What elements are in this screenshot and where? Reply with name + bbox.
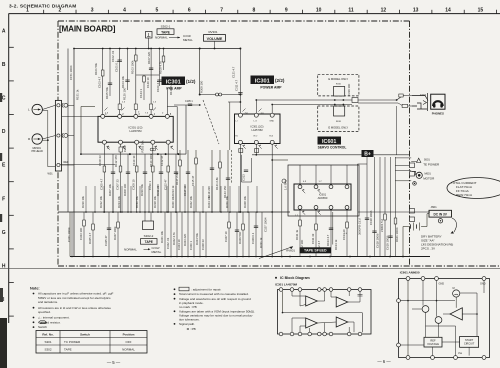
svg-text:SERVO CONTROL: SERVO CONTROL: [318, 145, 347, 149]
svg-text:R328 10k: R328 10k: [243, 195, 247, 208]
svg-text:R110 2.2k: R110 2.2k: [169, 82, 173, 95]
svg-text:TAPE: TAPE: [145, 240, 153, 244]
svg-text:IC601: IC601: [319, 193, 327, 197]
svg-text:C307 33: C307 33: [116, 179, 120, 190]
svg-text:R614 1k: R614 1k: [334, 239, 338, 250]
svg-text:G: G: [2, 230, 6, 236]
svg-text:R310 10k: R310 10k: [81, 195, 85, 208]
svg-text:S302-1: S302-1: [161, 25, 171, 29]
svg-text:C115 47: C115 47: [191, 175, 195, 186]
svg-text:4: 4: [123, 8, 126, 14]
svg-text:Position: Position: [123, 332, 135, 336]
svg-text:C105 1: C105 1: [185, 100, 193, 103]
svg-text:6: 6: [188, 8, 191, 14]
svg-text:S302-2: S302-2: [144, 234, 154, 238]
svg-text:IC601 AN6650: IC601 AN6650: [400, 271, 420, 275]
svg-text:REF: REF: [430, 338, 436, 342]
svg-text:C328 33: C328 33: [201, 239, 205, 250]
svg-text:C120 10: C120 10: [146, 77, 150, 88]
svg-text:5: 5: [156, 8, 159, 14]
svg-text:PB HEAD: PB HEAD: [32, 149, 44, 153]
svg-text:12: 12: [381, 8, 387, 14]
svg-text:Switch: Switch: [38, 325, 47, 329]
svg-text:R109 4.7k: R109 4.7k: [159, 61, 163, 74]
svg-text:R105 56k: R105 56k: [105, 86, 109, 99]
svg-text:GND: GND: [439, 283, 445, 286]
svg-text:R324 10k: R324 10k: [207, 195, 211, 208]
svg-text:Note:: Note:: [30, 287, 40, 291]
svg-text:C611 33: C611 33: [311, 233, 315, 244]
svg-text:C618 100/6: C618 100/6: [369, 210, 373, 225]
svg-text:no mark : PB: no mark : PB: [179, 305, 197, 309]
svg-text:NORMAL: NORMAL: [155, 36, 168, 40]
svg-text:C326 1: C326 1: [189, 241, 193, 250]
svg-text:13: 13: [413, 8, 419, 14]
svg-text:R307 10k: R307 10k: [108, 183, 112, 196]
svg-text:R322 10k: R322 10k: [189, 195, 193, 208]
svg-text:C101 0.1: C101 0.1: [115, 60, 119, 72]
svg-text:R151 1k: R151 1k: [76, 89, 80, 100]
svg-text:TAPE SPEED: TAPE SPEED: [304, 249, 327, 253]
svg-text:R316 10k: R316 10k: [135, 195, 139, 208]
svg-text:D: D: [2, 129, 6, 135]
svg-text:(2/2): (2/2): [275, 78, 285, 83]
svg-text:S601: S601: [424, 158, 430, 161]
svg-text:tion tolerances.: tion tolerances.: [179, 317, 200, 321]
svg-text:TE POWER: TE POWER: [423, 163, 440, 167]
svg-text:DC IN 3V: DC IN 3V: [433, 213, 447, 217]
svg-text:R612 100: R612 100: [300, 239, 304, 252]
svg-text:MOTOR: MOTOR: [423, 176, 435, 180]
svg-text:R618: R618: [336, 121, 342, 123]
svg-text:1: 1: [26, 8, 29, 14]
svg-text:S302: S302: [44, 347, 51, 351]
svg-text:M: M: [453, 287, 455, 290]
svg-text:METAL: METAL: [152, 250, 162, 254]
svg-text:C305 4.7: C305 4.7: [100, 178, 104, 190]
svg-text:RV601: RV601: [286, 249, 295, 253]
svg-text:R310 56k: R310 56k: [140, 183, 144, 196]
svg-text:J601: J601: [431, 205, 438, 209]
svg-text:C: C: [2, 96, 6, 102]
svg-text:C151 100/4: C151 100/4: [69, 65, 73, 80]
svg-text:R320 10k: R320 10k: [171, 195, 175, 208]
svg-text:C124 1: C124 1: [139, 89, 143, 98]
svg-text:R324 56k: R324 56k: [195, 232, 199, 245]
svg-text:R104 10k: R104 10k: [121, 75, 125, 88]
svg-text:(1/2): (1/2): [186, 79, 196, 84]
svg-text:2: 2: [58, 8, 61, 14]
svg-text:C311 4.7: C311 4.7: [235, 79, 239, 91]
svg-text:VOLUME: VOLUME: [207, 37, 223, 41]
svg-text:POWER AMP: POWER AMP: [260, 86, 282, 90]
svg-text:R331 1k: R331 1k: [259, 237, 263, 248]
svg-text:9: 9: [285, 8, 288, 14]
svg-text:C319 100: C319 100: [347, 83, 351, 96]
svg-text:3-2. SCHEMATIC DIAGRAM: 3-2. SCHEMATIC DIAGRAM: [9, 3, 77, 9]
svg-text:CIRCUIT: CIRCUIT: [464, 342, 475, 346]
svg-text:C322 .01: C322 .01: [166, 237, 170, 249]
svg-text:R117 2.2k: R117 2.2k: [175, 172, 179, 185]
svg-text:GND: GND: [269, 120, 274, 122]
svg-text:NORMAL: NORMAL: [124, 247, 137, 251]
svg-text:W01: W01: [48, 172, 54, 175]
svg-text:— 6 —: — 6 —: [377, 359, 391, 364]
svg-text:L.O: L.O: [254, 120, 258, 122]
svg-text:R.O: R.O: [254, 136, 258, 138]
svg-text:C310 1: C310 1: [148, 181, 152, 190]
svg-text:R316: R316: [336, 84, 342, 86]
svg-text:VOLTAGE: VOLTAGE: [427, 342, 439, 346]
svg-text:TAPE: TAPE: [161, 30, 171, 34]
svg-text:R107 220: R107 220: [147, 51, 151, 64]
svg-text:Ref. No.: Ref. No.: [42, 332, 54, 336]
svg-text:TAPE: TAPE: [64, 347, 72, 351]
svg-text:15: 15: [478, 8, 484, 14]
svg-text:C325 47: C325 47: [104, 235, 108, 246]
svg-text:C327 100/4: C327 100/4: [264, 217, 268, 232]
svg-text:B: B: [2, 62, 6, 68]
svg-text:OFF: OFF: [126, 340, 132, 344]
svg-text:LA4570M: LA4570M: [130, 129, 143, 133]
svg-text:14: 14: [445, 8, 451, 14]
svg-text:10: 10: [316, 8, 322, 14]
svg-text:IC301: IC301: [255, 78, 270, 84]
svg-text:⊐ : PB: ⊐ : PB: [187, 327, 196, 331]
svg-text:3: 3: [91, 8, 94, 14]
svg-text:R318 10k: R318 10k: [153, 195, 157, 208]
svg-text:S301: S301: [44, 340, 51, 344]
svg-text:START: START: [465, 338, 474, 342]
svg-text:IC301 (2/2): IC301 (2/2): [251, 125, 264, 129]
svg-text:E MODEL ONLY: E MODEL ONLY: [328, 126, 348, 130]
svg-text:C618 100/6: C618 100/6: [376, 233, 380, 248]
svg-text:REW:70mA: REW:70mA: [456, 193, 473, 197]
svg-text:R101 56k: R101 56k: [94, 62, 98, 75]
svg-text:R323 220: R323 220: [183, 233, 187, 246]
svg-text:Signal path.: Signal path.: [179, 322, 195, 326]
svg-text:R312 10k: R312 10k: [99, 195, 103, 208]
svg-text:C112 47: C112 47: [160, 155, 164, 166]
svg-text:ZD601 5.6: ZD601 5.6: [380, 218, 384, 232]
svg-text:: adjustment for repair.: : adjustment for repair.: [191, 287, 221, 291]
svg-text:IC601: IC601: [322, 139, 336, 145]
svg-text:C321 100/4: C321 100/4: [67, 227, 71, 242]
svg-text:IC301 LA4570M: IC301 LA4570M: [275, 283, 298, 287]
svg-text:[MAIN BOARD]: [MAIN BOARD]: [59, 25, 116, 34]
svg-text:R327 100k: R327 100k: [113, 226, 117, 240]
svg-text:M601: M601: [425, 173, 432, 176]
svg-text:AN6650: AN6650: [318, 196, 328, 200]
svg-text:Total current is measured with: Total current is measured with no casset…: [179, 292, 249, 296]
svg-text:C323 100: C323 100: [79, 227, 83, 240]
svg-text:A: A: [2, 28, 6, 34]
svg-text:PHONES: PHONES: [432, 112, 444, 116]
svg-text:C612 4.7: C612 4.7: [317, 240, 321, 252]
svg-text:E MODEL ONLY: E MODEL ONLY: [328, 77, 348, 81]
svg-text:and tantalums.: and tantalums.: [38, 300, 58, 304]
svg-text:NORMAL: NORMAL: [122, 347, 135, 351]
svg-text:C313: C313: [242, 174, 246, 181]
svg-text:R621 100/4: R621 100/4: [395, 227, 399, 242]
svg-text:C327 10: C327 10: [224, 231, 228, 242]
svg-text:R325 4.7: R325 4.7: [88, 232, 92, 244]
svg-text:F: F: [2, 196, 5, 202]
svg-text:R309 100: R309 100: [200, 80, 204, 93]
svg-text:△ : internal component.: △ : internal component.: [38, 316, 70, 320]
svg-text:RV301: RV301: [208, 30, 217, 34]
svg-text:IC Block Diagram: IC Block Diagram: [280, 276, 310, 280]
svg-text:C102 .01: C102 .01: [111, 50, 115, 62]
svg-text:8: 8: [253, 8, 256, 14]
svg-text:C108 33: C108 33: [98, 155, 102, 166]
svg-text:C324 10: C324 10: [177, 239, 181, 250]
svg-text:7: 7: [220, 8, 223, 14]
svg-text:METAL: METAL: [183, 38, 193, 42]
svg-text:LA4570M: LA4570M: [251, 128, 262, 132]
svg-text:R.I: R.I: [235, 136, 238, 138]
svg-text:R326 10k: R326 10k: [225, 195, 229, 208]
svg-text:R103 100k: R103 100k: [131, 60, 135, 74]
svg-text:C106 4.7: C106 4.7: [156, 80, 160, 92]
svg-text:R114 100k: R114 100k: [149, 153, 153, 167]
svg-text:— 5 —: — 5 —: [107, 360, 121, 365]
svg-text:R322 4.7k: R322 4.7k: [172, 232, 176, 245]
svg-text:3600PB C617: 3600PB C617: [358, 217, 362, 235]
svg-text:C619 100/6: C619 100/6: [386, 235, 390, 250]
svg-text:11: 11: [348, 8, 354, 14]
svg-text:R611 1k: R611 1k: [295, 229, 299, 240]
svg-text:C121 4.7: C121 4.7: [232, 66, 236, 78]
svg-text:C110 10: C110 10: [132, 155, 136, 166]
svg-text:R120 100: R120 100: [123, 87, 127, 100]
svg-text:R613 4.7: R613 4.7: [326, 234, 330, 246]
svg-text:B+: B+: [364, 151, 371, 157]
svg-text:GND: GND: [480, 283, 486, 286]
svg-text:TC POWER: TC POWER: [64, 340, 81, 344]
svg-text:C329 0.1: C329 0.1: [251, 232, 255, 244]
svg-text:R303 56k: R303 56k: [141, 140, 145, 153]
svg-text:R329 560: R329 560: [238, 231, 242, 244]
svg-text:R321 10k: R321 10k: [160, 230, 164, 243]
svg-text:R313 1k: R313 1k: [171, 185, 175, 196]
svg-text:C302: C302: [123, 145, 127, 152]
svg-text:C309 10: C309 10: [132, 179, 136, 190]
svg-text:2PCS , 3V: 2PCS , 3V: [421, 246, 435, 250]
svg-text:R112 470: R112 470: [114, 155, 118, 167]
svg-text:R121 6.8k: R121 6.8k: [215, 177, 219, 190]
svg-text:specified.: specified.: [38, 310, 51, 314]
svg-text:R308 100: R308 100: [123, 183, 127, 196]
svg-text:Switch: Switch: [80, 332, 90, 336]
svg-text:C103 4.7: C103 4.7: [98, 76, 102, 88]
svg-text:R314 10k: R314 10k: [117, 195, 121, 208]
svg-text:1.6 SRV: 1.6 SRV: [284, 180, 288, 190]
